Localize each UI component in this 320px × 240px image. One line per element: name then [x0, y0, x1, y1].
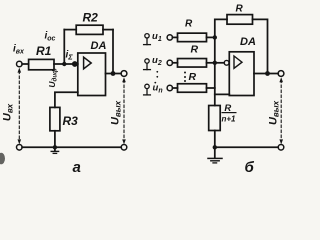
svg-text:а: а: [73, 159, 81, 172]
svg-text:DA: DA: [91, 40, 107, 52]
svg-text:R: R: [191, 43, 199, 55]
svg-text:R: R: [224, 103, 231, 114]
svg-text:DA: DA: [240, 36, 256, 48]
svg-text:б: б: [245, 159, 255, 172]
svg-text:R1: R1: [36, 44, 52, 58]
svg-text:n+1: n+1: [221, 115, 236, 124]
svg-text:R: R: [236, 4, 244, 15]
svg-text:R: R: [185, 19, 193, 30]
svg-text:R2: R2: [83, 10, 99, 24]
svg-text:R: R: [189, 71, 197, 83]
svg-text:R3: R3: [63, 114, 79, 128]
